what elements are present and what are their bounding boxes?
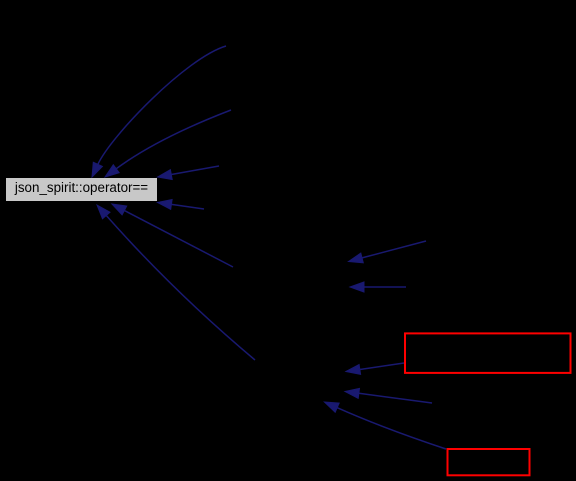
edge from node G to caller node E: [349, 241, 427, 263]
edge from caller node E to json_spirit::operator==: [112, 204, 233, 267]
svg-text:json_spirit::operator==: json_spirit::operator==: [14, 180, 148, 195]
red node 2 (truncated caller, small): [448, 449, 530, 475]
edge from caller node A (top) to json_spirit::operator==: [92, 46, 226, 177]
edge from red node 1 to caller node F: [346, 363, 404, 374]
edge from red node 2 to caller node F: [324, 402, 446, 449]
red node 1 (truncated caller, large): [405, 333, 571, 373]
edge from caller node C to json_spirit::operator==: [158, 166, 220, 180]
edge from node H to caller node E: [350, 282, 406, 292]
edge from node I to caller node F: [345, 388, 432, 403]
edge from caller node B to json_spirit::operator==: [105, 110, 231, 177]
edge from caller node D to json_spirit::operator==: [158, 200, 205, 210]
edge from caller node F (bottom) to json_spirit::operator==: [97, 205, 255, 360]
node json_spirit::operator== (current node, grey): [6, 178, 157, 201]
